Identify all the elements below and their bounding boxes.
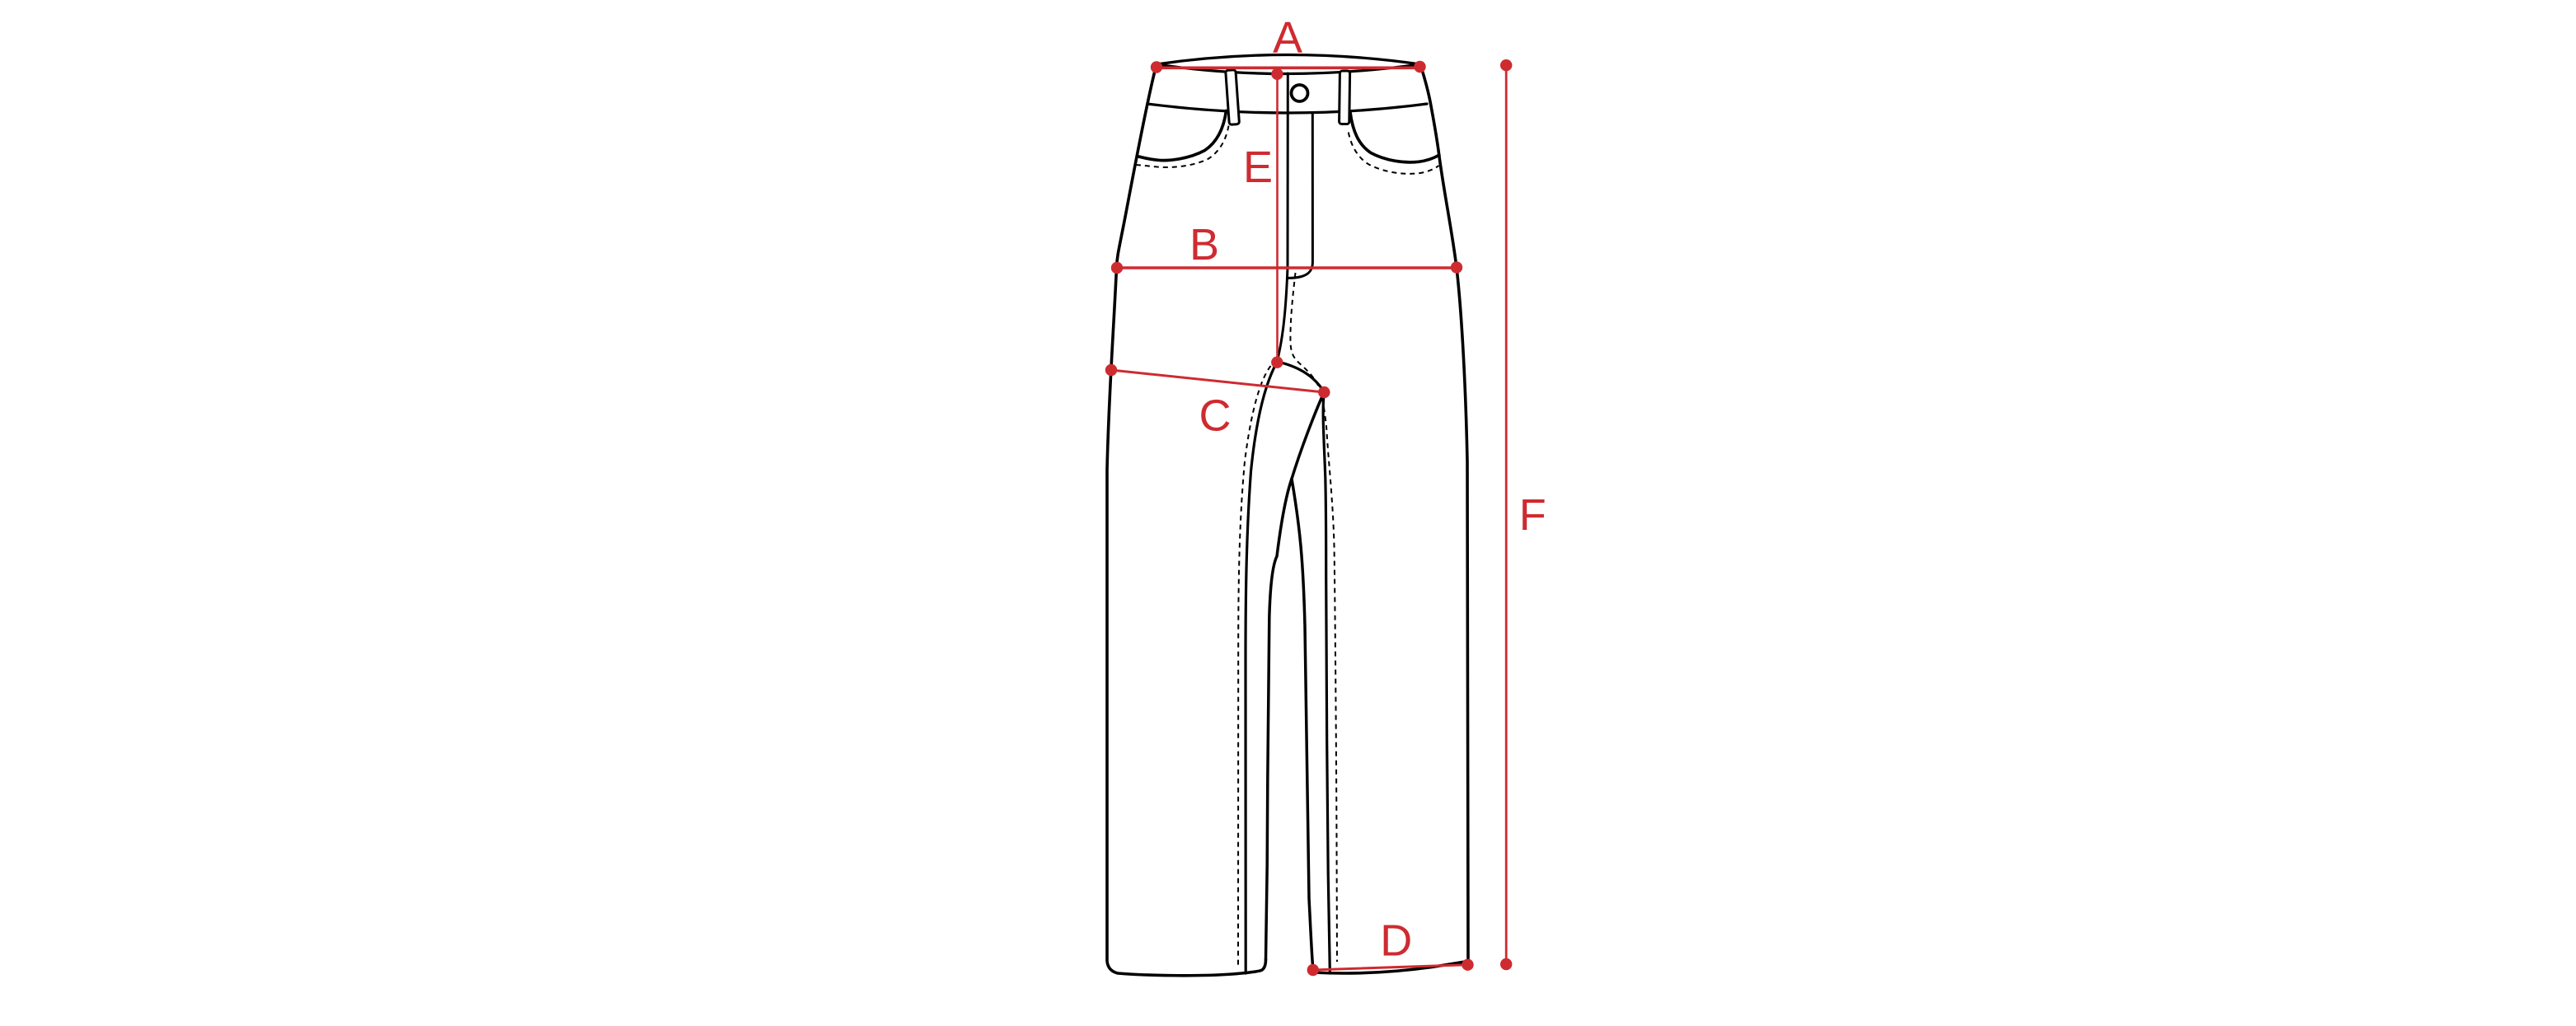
- svg-text:B: B: [1189, 220, 1219, 269]
- svg-text:F: F: [1519, 490, 1546, 540]
- svg-text:C: C: [1199, 391, 1232, 441]
- svg-text:A: A: [1273, 13, 1302, 63]
- svg-text:D: D: [1380, 916, 1412, 966]
- svg-text:E: E: [1243, 143, 1273, 192]
